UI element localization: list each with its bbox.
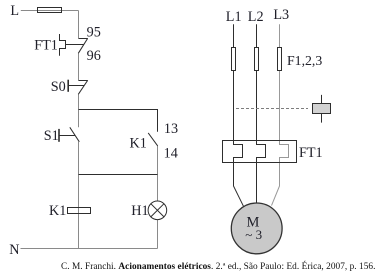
svg-text:~ 3: ~ 3: [245, 227, 262, 242]
svg-text:95: 95: [87, 25, 101, 41]
svg-text:FT1: FT1: [34, 38, 58, 54]
svg-text:N: N: [9, 242, 19, 258]
svg-text:K1: K1: [49, 203, 66, 219]
svg-text:L: L: [10, 3, 19, 19]
svg-text:S0: S0: [51, 79, 66, 95]
svg-text:13: 13: [164, 121, 178, 137]
svg-text:L2: L2: [248, 9, 264, 25]
svg-text:S1: S1: [44, 128, 59, 144]
svg-text:FT1: FT1: [299, 145, 323, 161]
svg-text:L3: L3: [273, 7, 289, 23]
svg-text:L1: L1: [226, 9, 242, 25]
svg-text:K1: K1: [130, 136, 147, 152]
svg-text:H1: H1: [131, 203, 148, 219]
svg-text:F1,2,3: F1,2,3: [287, 53, 322, 68]
svg-text:14: 14: [164, 145, 178, 161]
svg-text:96: 96: [87, 48, 101, 64]
